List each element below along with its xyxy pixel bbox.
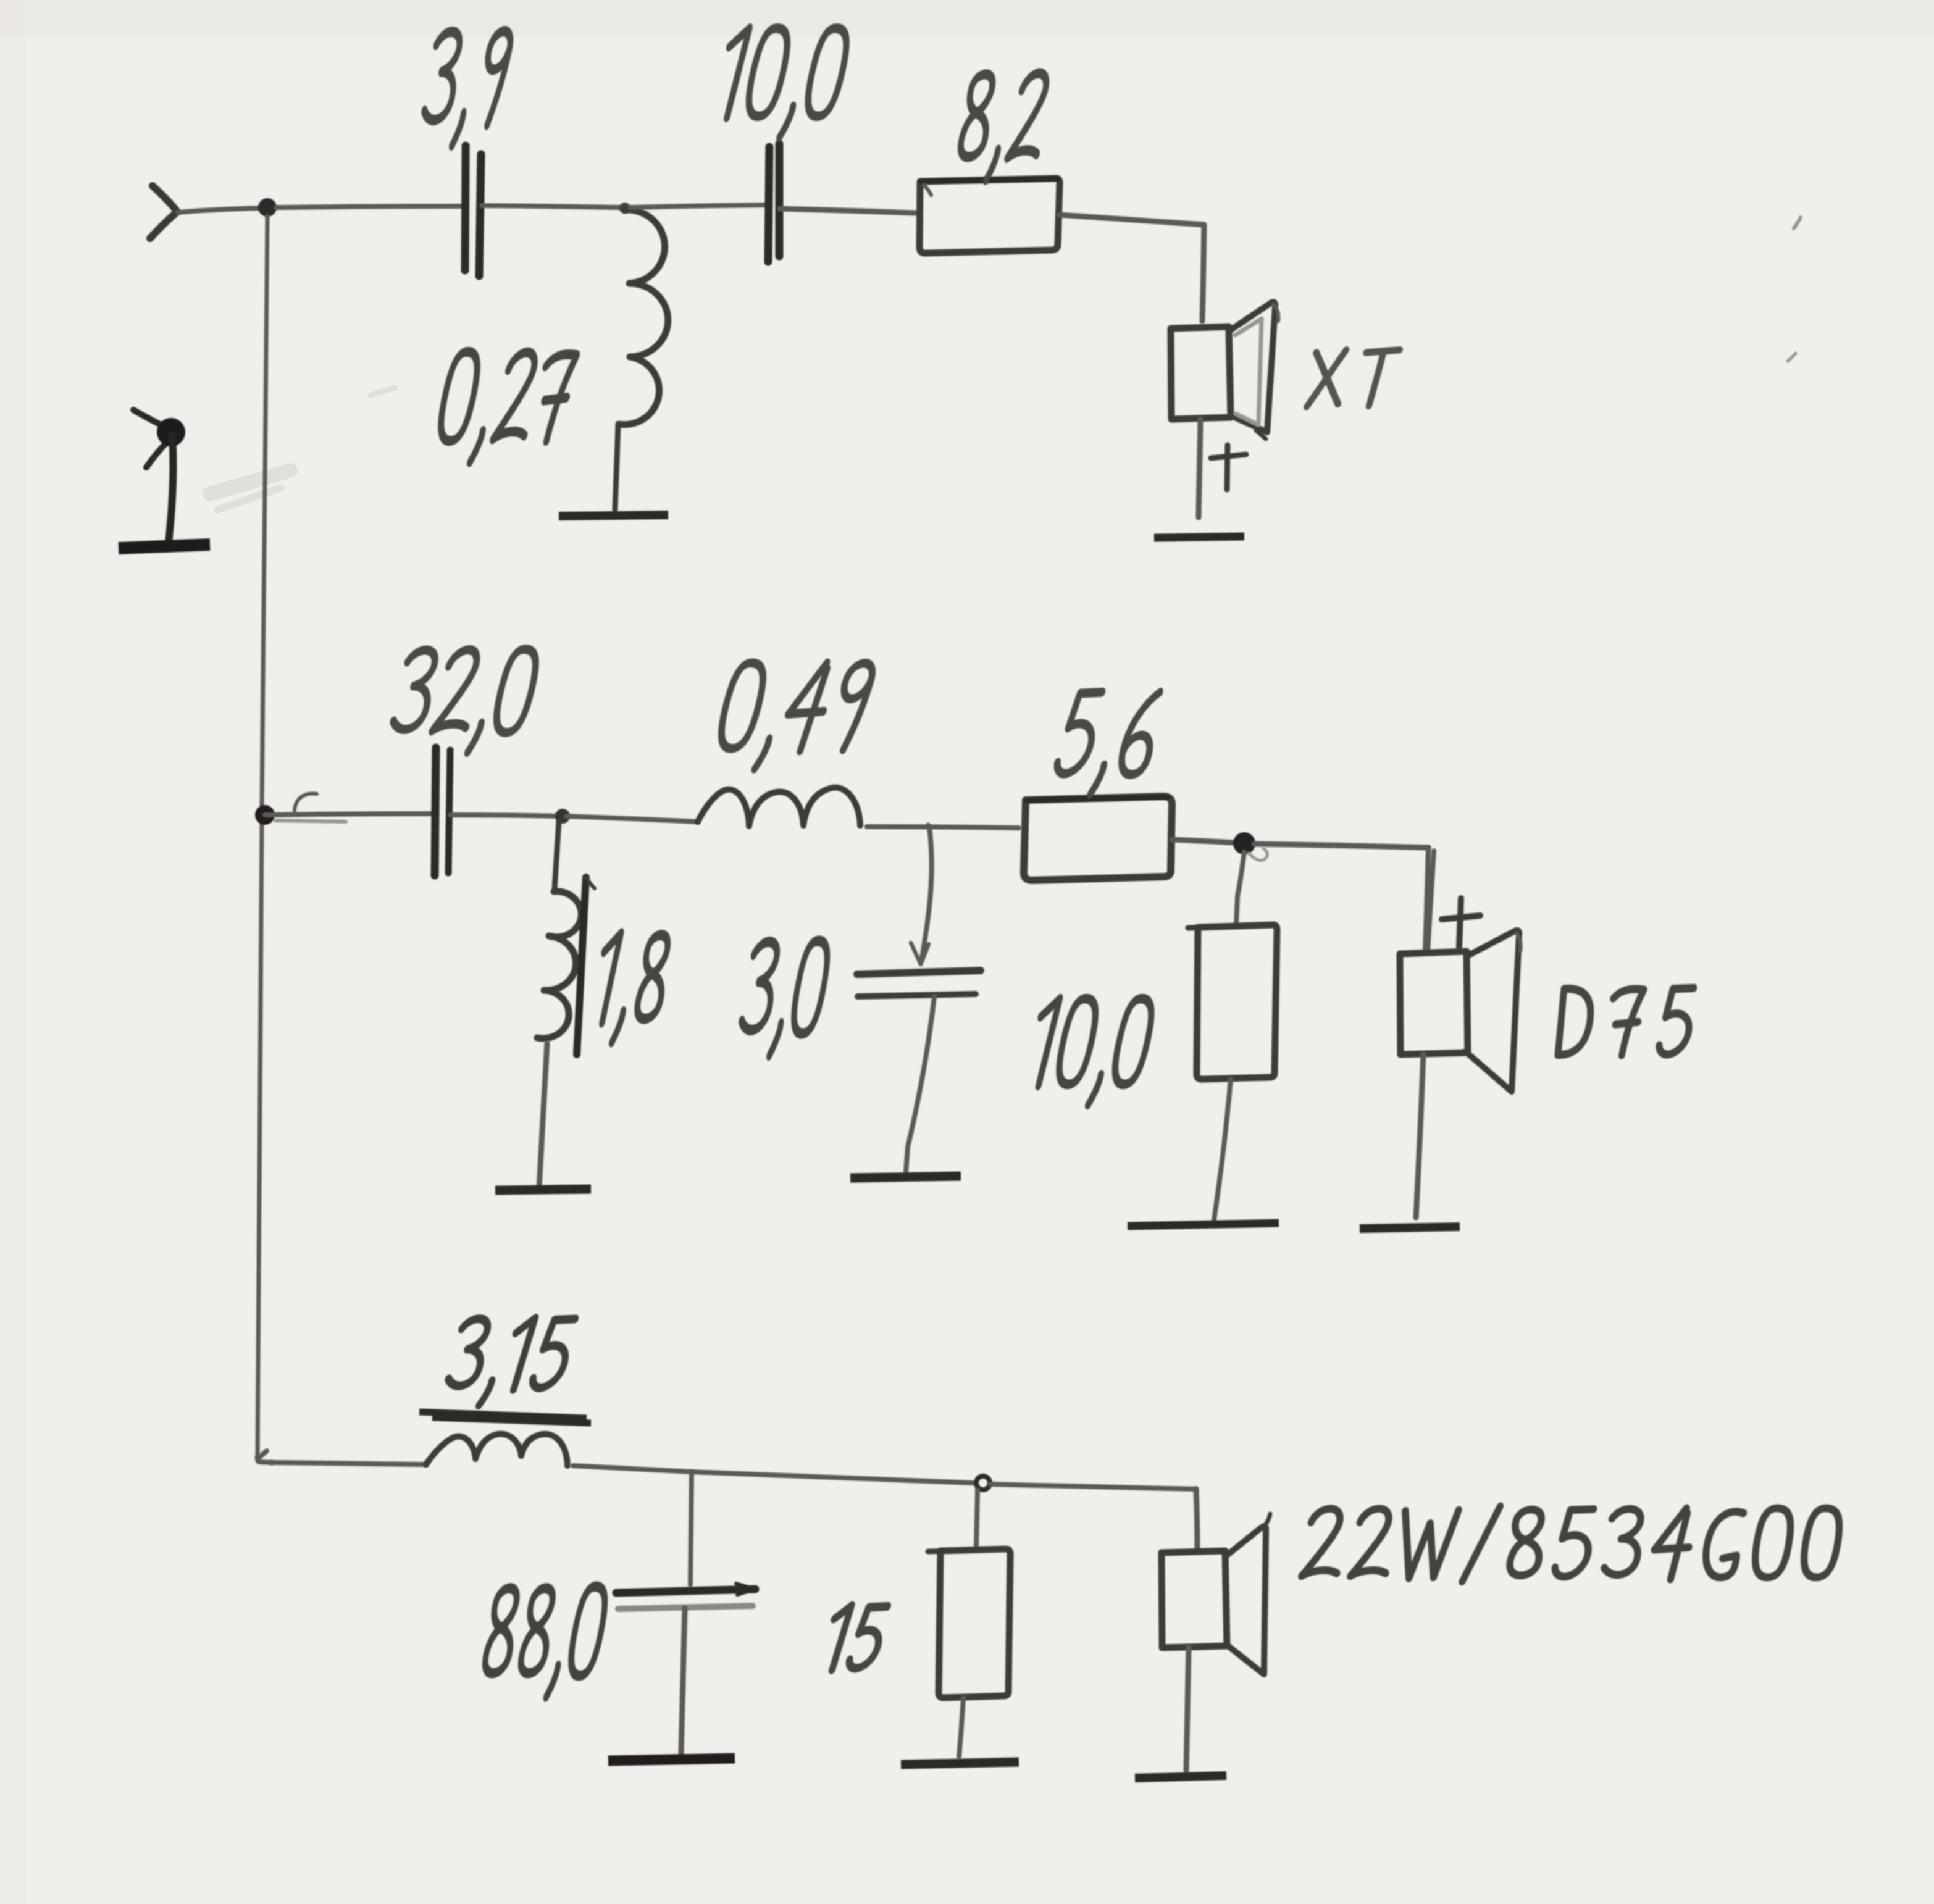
wire (down to R3) [1236,848,1267,924]
label 88,0 [479,1587,609,1697]
inductor L4 3,15 core [419,1412,591,1423]
resistor R3 10,0 [1188,925,1277,1079]
wire [780,209,916,213]
ground (under L2) [495,1189,591,1190]
label D75 [1557,988,1694,1055]
input terminal IN+ [150,186,177,238]
speaker D75 [1400,848,1521,1092]
ground (under 22W) [1135,1776,1226,1778]
wire [959,1698,963,1756]
speaker XT [1171,302,1278,439]
inductor L2 1,8 [537,821,595,1054]
capacitor C5 88,0 [616,1584,755,1609]
wire [450,815,559,816]
label 10,0 (R3) [1024,999,1156,1105]
capacitor C4 3,0 [857,971,981,996]
inductor L3 0,49 [698,788,860,826]
wire [681,1608,685,1753]
wire (to C4) [911,827,932,964]
resistor R4 15 [928,1549,1010,1698]
label 15 [822,1606,887,1670]
label 5,6 [1050,692,1162,794]
node F (junction blob) [1233,832,1255,854]
wire [178,208,266,212]
ground (under C5) [608,1758,735,1761]
ground (under R3) [1128,1223,1279,1226]
label 1,8 [589,933,672,1042]
node E [928,825,931,828]
wire [1254,844,1428,848]
wire [1214,1079,1231,1220]
wire [276,206,463,207]
polarity + (XT) [1211,445,1246,490]
ground (under XT) [1154,537,1244,538]
label 10,0 [711,28,851,137]
wire [1172,840,1234,843]
ground (under L1) [559,515,668,516]
wire [573,1466,973,1483]
capacitor C3 32,0 [435,748,450,875]
wire [906,996,934,1172]
label 3,9 [419,31,513,146]
wire (bus corner) [257,1451,272,1463]
wire [272,1463,426,1464]
ground (input) [119,545,210,548]
resistor R2 5,6 [1024,796,1172,880]
wire [990,1484,1196,1489]
node B [619,203,630,214]
wire [168,435,173,548]
polarity + (D75) [1442,898,1480,947]
speaker 22W/8534G00 [1162,1489,1270,1674]
wire [265,793,433,822]
wire [1060,215,1204,321]
inductor L1 0,27 [615,210,668,510]
wire (to R4) [976,1490,977,1547]
wire [1416,1054,1423,1217]
node G (circle junction) [976,1476,990,1490]
wire [566,816,698,822]
label 3,0 [736,941,831,1056]
ground (under D75) [1360,1227,1460,1229]
wire [867,827,1019,828]
wire [1186,1648,1189,1771]
wire (to C5) [690,1472,692,1585]
wire [630,205,768,207]
wire (vertical bus) [257,216,267,1457]
node C (mid junction) [255,805,275,825]
node D [555,809,570,824]
wire [1199,419,1200,517]
ground (under C4) [850,1176,961,1178]
label 0,49 [712,663,875,769]
label 0,27 [433,352,578,462]
label XT [1307,350,1399,407]
capacitor C1 3,9 [465,146,481,276]
wire [539,1043,547,1188]
capacitor C2 10,0 [768,144,779,262]
resistor R1 8,2 [919,178,1060,253]
label 22W/8534G00 [1301,1506,1843,1582]
ground (under R4) [901,1762,1019,1764]
wire (stray mark) [1788,217,1801,361]
wire [482,206,622,207]
label 32,0 [387,649,540,753]
node (input- blob) [157,418,185,446]
label 3,15 [442,1318,576,1405]
input terminal IN- [133,410,177,467]
label 8,2 [954,73,1051,180]
node A (input junction) [258,198,277,217]
inductor L4 3,15 [426,1434,567,1466]
